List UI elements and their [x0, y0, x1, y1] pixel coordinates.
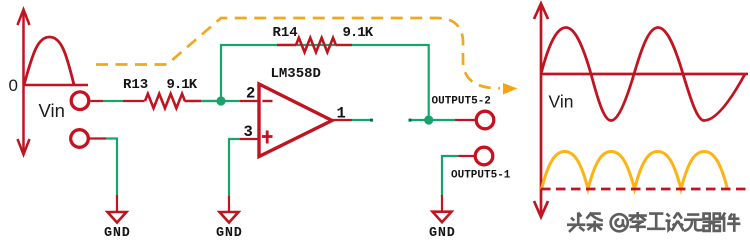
- svg-text:0: 0: [9, 76, 18, 95]
- svg-text:GND: GND: [216, 226, 243, 241]
- svg-text:LM358D: LM358D: [271, 66, 321, 82]
- svg-text:9.1K: 9.1K: [343, 25, 374, 41]
- svg-text:9.1K: 9.1K: [167, 77, 198, 93]
- svg-text:1: 1: [337, 105, 346, 123]
- svg-text:2: 2: [246, 85, 255, 103]
- svg-text:OUTPUT5-2: OUTPUT5-2: [432, 96, 491, 108]
- svg-text:3: 3: [244, 123, 253, 141]
- svg-text:Vin: Vin: [39, 100, 65, 121]
- svg-text:Vin: Vin: [549, 92, 574, 112]
- svg-text:R14: R14: [273, 25, 298, 41]
- svg-text:OUTPUT5-1: OUTPUT5-1: [451, 170, 511, 182]
- svg-text:GND: GND: [429, 226, 456, 241]
- svg-text:GND: GND: [104, 226, 131, 241]
- svg-text:R13: R13: [123, 77, 148, 93]
